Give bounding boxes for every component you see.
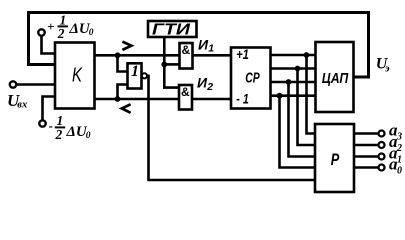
wire bus bit0 to P bbox=[280, 96, 316, 168]
terminal Uvx input bbox=[10, 81, 16, 87]
svg-text:ГТИ: ГТИ bbox=[152, 22, 191, 39]
svg-text:0: 0 bbox=[397, 165, 402, 176]
terminal a2 bbox=[379, 142, 385, 148]
node dot bit0 bbox=[277, 93, 283, 99]
wire bus bit2 to P bbox=[298, 69, 316, 146]
node dot lower K output bbox=[115, 96, 121, 102]
wire CP out bit1 to DAC bbox=[271, 81, 316, 84]
wire Uvx to K bbox=[16, 83, 55, 86]
less-than symbol bbox=[122, 104, 131, 113]
greater-than symbol bbox=[122, 42, 131, 50]
wire P output a3 bbox=[354, 132, 378, 135]
terminal a3 bbox=[379, 131, 385, 137]
wire branch lower to NOR input bbox=[118, 85, 128, 100]
wire branch upper to NOR input bbox=[118, 55, 128, 71]
svg-text:СР: СР bbox=[245, 69, 260, 86]
svg-text:1: 1 bbox=[131, 63, 139, 80]
NOR inversion circle bbox=[142, 73, 147, 78]
wire K lower output to AND2 bbox=[95, 98, 180, 101]
svg-text:P: P bbox=[331, 150, 340, 169]
comparator K box bbox=[55, 43, 95, 109]
svg-text:э: э bbox=[384, 62, 390, 74]
node dot bit3 bbox=[304, 52, 310, 58]
svg-text:K: K bbox=[72, 65, 83, 87]
terminal -1/2 dU0 bbox=[39, 120, 45, 126]
wire AND1 output to CP bbox=[193, 54, 232, 57]
wire bus bit3 to P bbox=[307, 55, 316, 134]
terminal +1/2 dU0 bbox=[38, 29, 44, 35]
node dot bit1 bbox=[286, 79, 292, 85]
counter CP box bbox=[231, 48, 271, 109]
AND gate I2 box bbox=[179, 85, 192, 110]
svg-text:&: & bbox=[182, 43, 191, 57]
wire terminal- to K bbox=[43, 97, 56, 121]
wire feedback loop from DAC output to comparator K bbox=[29, 13, 369, 78]
wire AND2 output to CP bbox=[192, 98, 231, 101]
svg-text:2: 2 bbox=[206, 81, 213, 93]
wire clock to AND2 bbox=[164, 64, 179, 87]
svg-text:ΔU: ΔU bbox=[66, 124, 88, 140]
node dot bit2 bbox=[295, 66, 301, 72]
terminal a1 bbox=[379, 154, 385, 160]
svg-text:- 1: - 1 bbox=[236, 90, 249, 106]
svg-text:1: 1 bbox=[397, 154, 402, 165]
wire P output a0 bbox=[354, 166, 378, 169]
svg-text:+: + bbox=[47, 19, 54, 34]
wire CP out bit3 to DAC bbox=[271, 54, 316, 57]
svg-text:+1: +1 bbox=[236, 46, 249, 62]
node dot clock branch bbox=[161, 62, 167, 68]
wire terminal+ to K bbox=[42, 36, 56, 54]
svg-text:ΔU: ΔU bbox=[69, 21, 91, 37]
wire P output a2 bbox=[354, 144, 378, 147]
NOR gate box 1 bbox=[128, 63, 142, 88]
DAC box bbox=[316, 42, 354, 112]
svg-text:вх: вх bbox=[17, 100, 27, 111]
svg-text:ЦАП: ЦАП bbox=[322, 70, 349, 87]
wire NOR output to register P latch bbox=[147, 76, 315, 180]
register P box bbox=[315, 124, 354, 192]
wire CP out bit0 to DAC bbox=[271, 94, 316, 97]
terminal a0 bbox=[379, 165, 385, 171]
svg-text:1: 1 bbox=[57, 113, 64, 128]
svg-text:&: & bbox=[181, 85, 190, 99]
wire K upper output to AND1 bbox=[95, 54, 180, 57]
svg-text:1: 1 bbox=[208, 43, 214, 55]
node dot upper K output bbox=[115, 52, 121, 58]
wire clock branch to AND1 bbox=[164, 63, 179, 66]
wire P output a1 bbox=[354, 155, 378, 158]
wire bus bit1 to P bbox=[289, 82, 316, 157]
svg-text:-: - bbox=[49, 118, 53, 133]
svg-text:2: 2 bbox=[55, 127, 63, 142]
svg-text:2: 2 bbox=[57, 26, 65, 41]
clock generator GTI box bbox=[148, 21, 197, 37]
svg-text:0: 0 bbox=[89, 28, 94, 38]
wire CP out bit2 to DAC bbox=[271, 67, 316, 70]
svg-text:0: 0 bbox=[86, 131, 91, 141]
wire GTI clock down bbox=[163, 37, 166, 64]
AND gate I1 box bbox=[180, 43, 193, 69]
